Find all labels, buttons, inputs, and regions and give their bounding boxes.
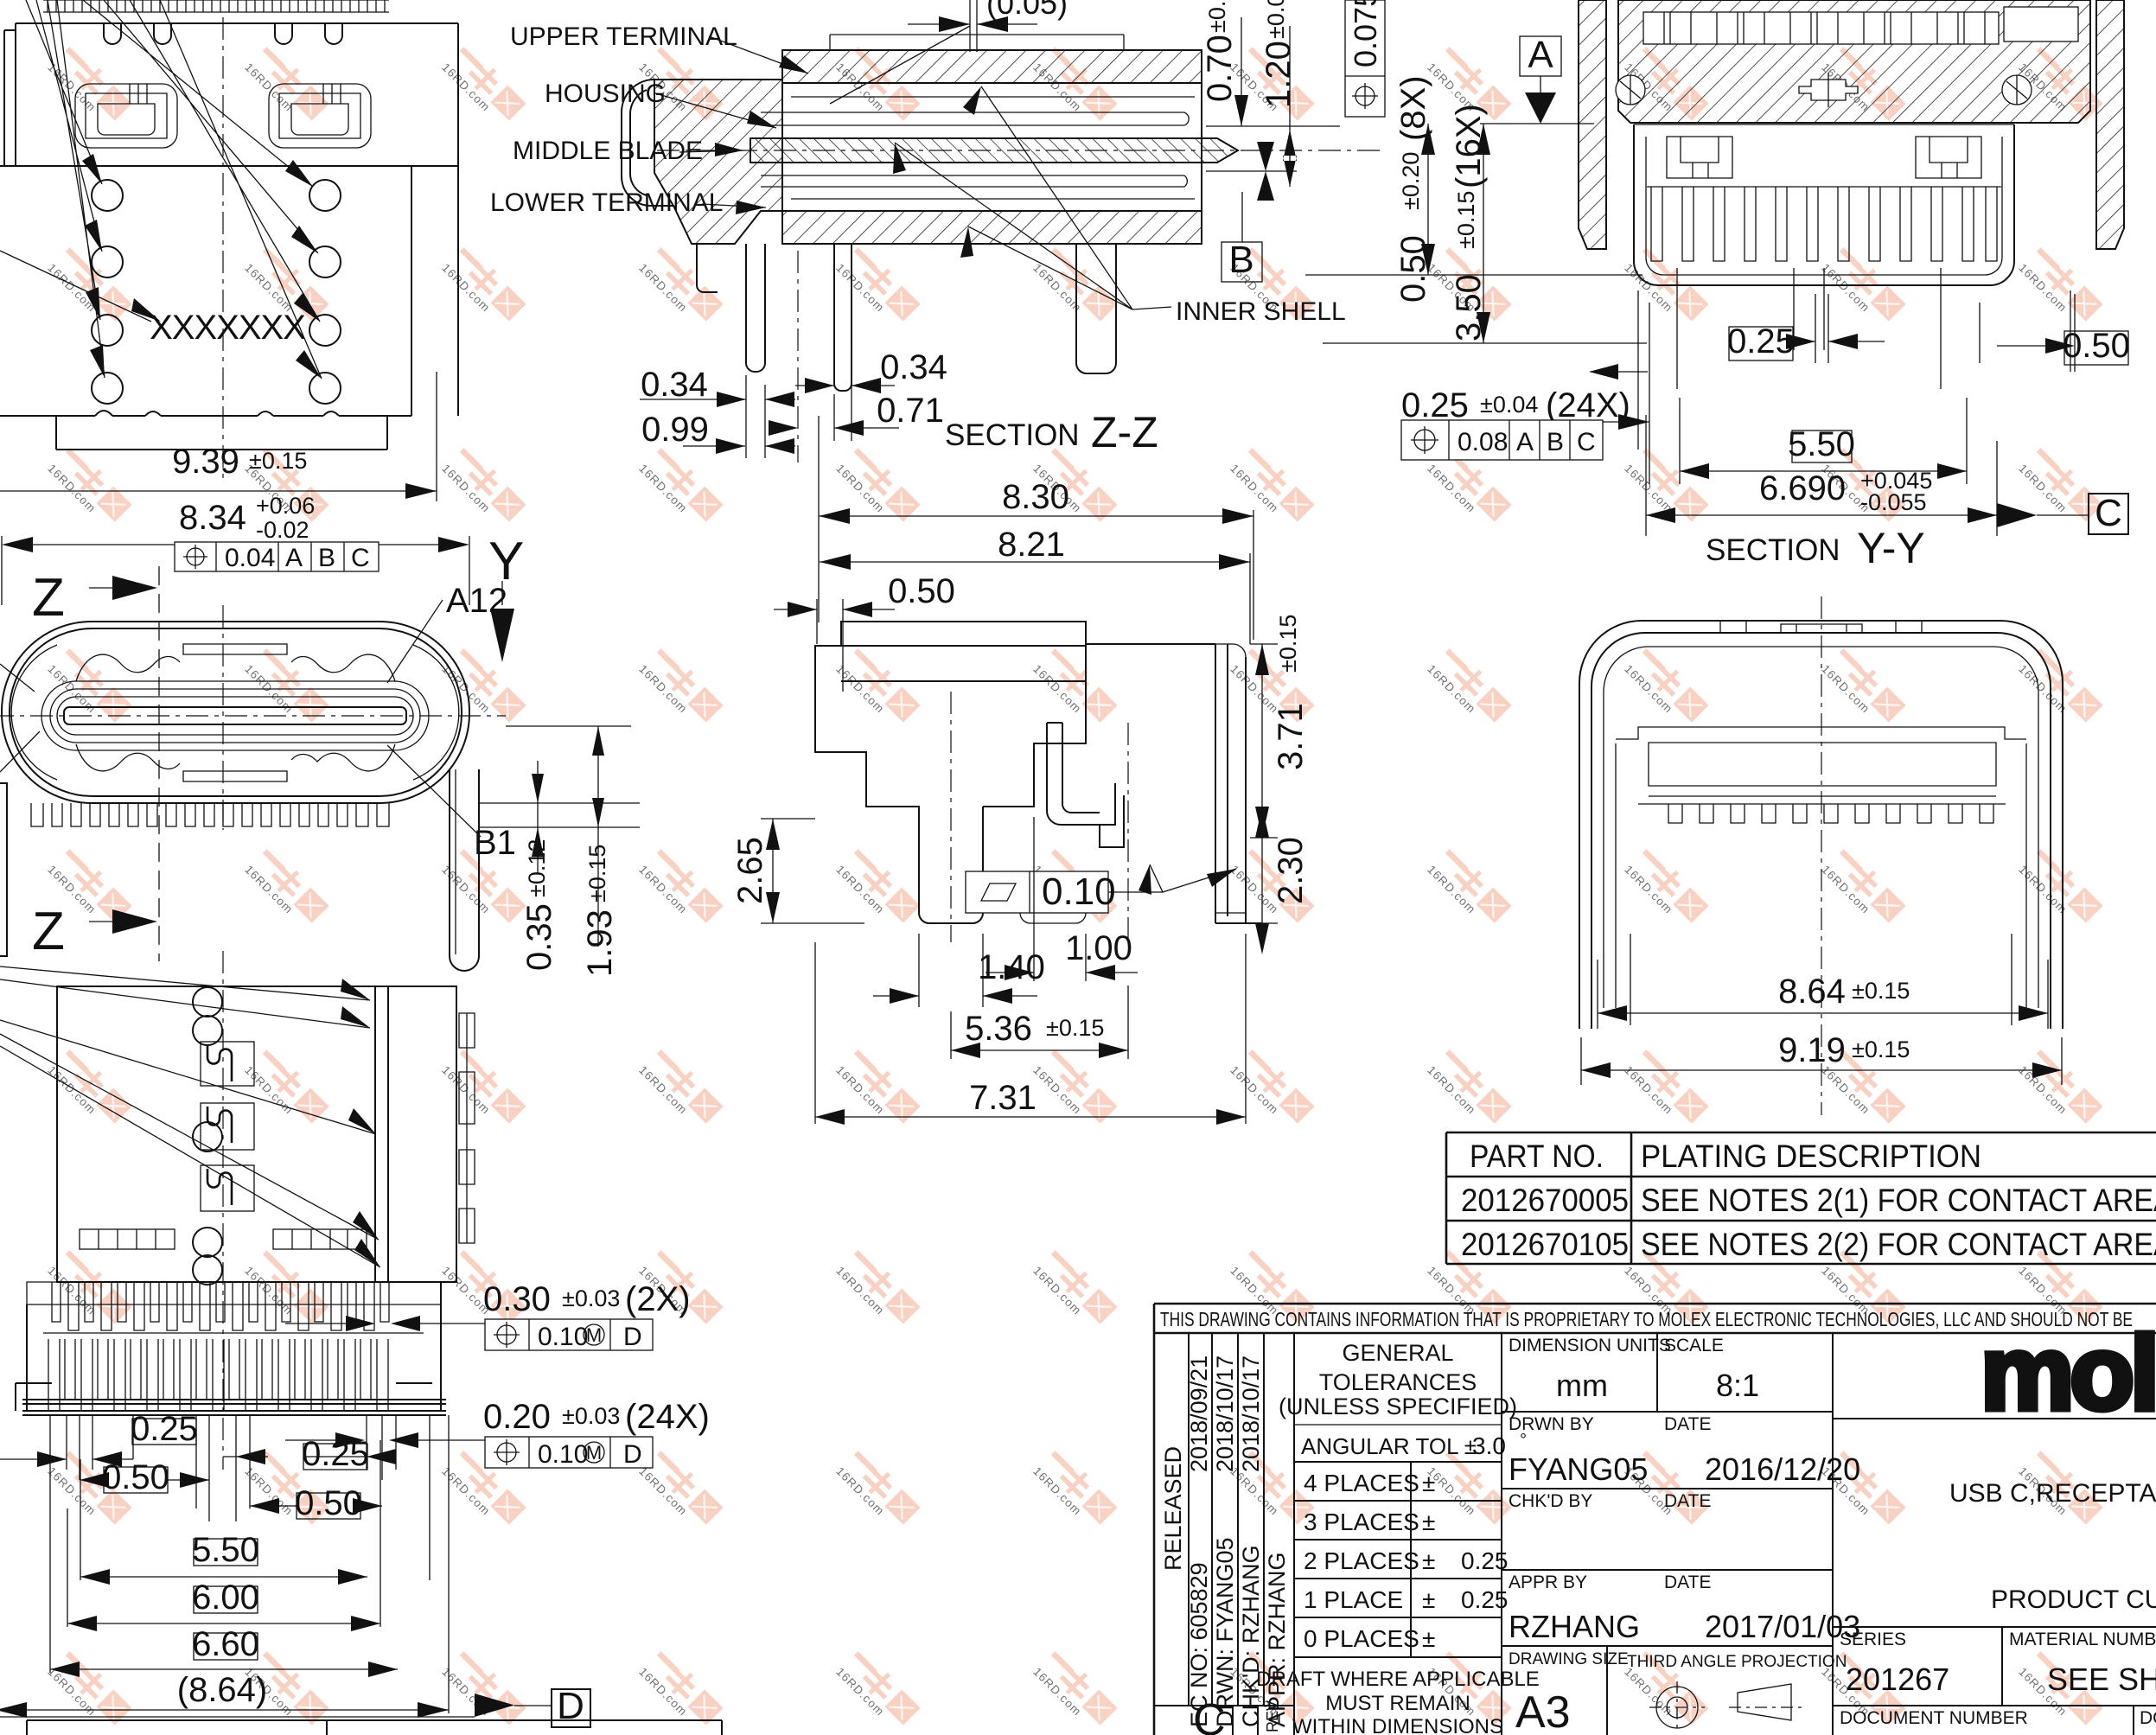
outer shell [1579, 621, 2063, 1029]
inner body [1616, 727, 2026, 823]
svg-text:SEE NOTES 2(1) FOR CONTACT ARE: SEE NOTES 2(1) FOR CONTACT AREA PLATING [1641, 1183, 2156, 1218]
pin comb block [16, 1282, 446, 1415]
svg-text:-0.02: -0.02 [256, 517, 309, 543]
svg-text:XXXXXXX: XXXXXXX [150, 309, 305, 347]
housing block (hatched) [654, 80, 782, 244]
svg-text:±: ± [1422, 1547, 1435, 1574]
vertical feature frame 0.075 [1345, 0, 1385, 117]
position frame 0.04 ABC [175, 542, 379, 571]
svg-text:±0.15: ±0.15 [249, 448, 307, 474]
svg-text:SERIES: SERIES [1840, 1630, 1906, 1649]
left leg stub at page edge [0, 783, 7, 956]
svg-text:0.04: 0.04 [225, 544, 275, 572]
svg-text:2.65: 2.65 [731, 837, 769, 904]
svg-text:2018/09/21: 2018/09/21 [1186, 1355, 1212, 1472]
svg-text:0.25: 0.25 [1401, 386, 1469, 424]
bottom dims [640, 251, 899, 462]
svg-text:DRWN BY: DRWN BY [1509, 1414, 1594, 1434]
svg-text:FYANG05: FYANG05 [1509, 1451, 1648, 1487]
centerline [222, 17, 224, 484]
svg-text:1.20: 1.20 [1260, 41, 1298, 108]
svg-text:7.31: 7.31 [969, 1079, 1037, 1117]
side wall left (hatched) [1579, 0, 1606, 249]
svg-text:B: B [318, 544, 335, 572]
svg-text:2 PLACES: 2 PLACES [1304, 1547, 1419, 1574]
svg-text:A12: A12 [446, 582, 507, 620]
view: bottom (lower-left) [0, 951, 710, 1727]
svg-text:(0.05): (0.05) [986, 0, 1068, 21]
bottom-left notes table stub [27, 1720, 722, 1735]
upper body [4, 23, 458, 166]
svg-text:6.60: 6.60 [192, 1625, 259, 1663]
svg-text:DRAWING SIZE: DRAWING SIZE [1509, 1650, 1629, 1668]
view: SECTION Z-Z [490, 0, 1385, 462]
svg-text:2012670005: 2012670005 [1461, 1183, 1629, 1218]
svg-text:6.690: 6.690 [1759, 469, 1846, 507]
svg-text:3.71: 3.71 [1272, 703, 1310, 770]
svg-text:0.34: 0.34 [880, 348, 947, 386]
EMC finger circles and meanders [193, 987, 222, 1285]
svg-text:0.10: 0.10 [1042, 871, 1116, 913]
bowtie arrows at 0.70 lower [1257, 142, 1274, 201]
dim 6.00 [194, 1586, 258, 1613]
svg-text:0 PLACES: 0 PLACES [1304, 1625, 1419, 1652]
svg-text:PRODUCT CUSTOME: PRODUCT CUSTOME [1991, 1585, 2156, 1614]
svg-text:RZHANG: RZHANG [1509, 1609, 1640, 1644]
extension lines below view [1638, 268, 2070, 450]
right support leg [1076, 244, 1116, 373]
svg-text:M: M [586, 1442, 602, 1464]
svg-text:D: D [623, 1323, 642, 1351]
leader lines fan [0, 0, 322, 379]
svg-text:APPR BY: APPR BY [1509, 1572, 1587, 1592]
svg-text:M: M [586, 1324, 602, 1346]
svg-text:C: C [2095, 492, 2122, 534]
section arrow Y [488, 532, 524, 662]
svg-text:(2X): (2X) [625, 1280, 691, 1318]
svg-text:(UNLESS SPECIFIED): (UNLESS SPECIFIED) [1279, 1394, 1517, 1419]
svg-text:0.50: 0.50 [102, 1458, 169, 1496]
right board lock leg [450, 769, 479, 971]
svg-text:0.075: 0.075 [1348, 0, 1383, 67]
svg-text:2017/01/03: 2017/01/03 [1705, 1609, 1860, 1644]
top block (hatched) [1618, 0, 2090, 123]
svg-text:DOC: DOC [2140, 1708, 2156, 1728]
svg-text:0.08: 0.08 [1458, 428, 1508, 456]
svg-text:0.50: 0.50 [295, 1484, 362, 1522]
dims right 0.35 / 1.93 [478, 726, 640, 947]
contact teeth [1647, 187, 2001, 261]
comb in top block [1643, 7, 2078, 44]
svg-text:0.34: 0.34 [641, 366, 708, 404]
svg-text:Z: Z [32, 568, 65, 628]
svg-text:±0.15: ±0.15 [1275, 615, 1301, 673]
leader fan from page left [0, 966, 380, 1267]
outer shell bottom bar (hatched) [782, 211, 1202, 244]
svg-text:8.64: 8.64 [1778, 973, 1846, 1011]
svg-text:Z: Z [32, 902, 65, 961]
upper pins row [43, 1282, 424, 1333]
dim 5.50 [194, 1539, 258, 1566]
datum A [1520, 36, 1561, 76]
svg-text:MIDDLE BLADE: MIDDLE BLADE [513, 137, 703, 165]
svg-text:DATE: DATE [1664, 1414, 1711, 1434]
dim 0.50 box 2 [297, 1493, 360, 1519]
svg-text:6.00: 6.00 [192, 1579, 259, 1617]
section line Z-Z [32, 566, 159, 961]
SMT pad rows [80, 1229, 367, 1249]
table: part no / plating [1446, 1132, 2156, 1264]
latch cutout left [75, 84, 177, 148]
svg-text:B1: B1 [474, 824, 516, 862]
svg-text:0.20: 0.20 [483, 1398, 551, 1436]
svg-text:±0.15: ±0.15 [1852, 978, 1910, 1004]
svg-text:WITHIN DIMENSIONS: WITHIN DIMENSIONS [1292, 1715, 1503, 1735]
svg-text:±0.15: ±0.15 [1453, 191, 1479, 249]
bottom solder tails [31, 803, 389, 826]
right edge [1201, 50, 1202, 244]
svg-text:MATERIAL NUMBER: MATERIAL NUMBER [2009, 1630, 2156, 1649]
side wall right (hatched) [2096, 0, 2124, 249]
svg-text:0.30: 0.30 [483, 1280, 551, 1318]
svg-text:9.39: 9.39 [172, 443, 239, 481]
center cross [1799, 73, 1858, 107]
svg-text:DOCUMENT NUMBER: DOCUMENT NUMBER [1840, 1708, 2028, 1728]
outer shell [2, 622, 469, 803]
svg-text:THIRD ANGLE PROJECTION: THIRD ANGLE PROJECTION [1627, 1653, 1847, 1671]
svg-text:5.36: 5.36 [965, 1010, 1032, 1048]
housing shell wrap [622, 80, 674, 206]
svg-text:MUST REMAIN: MUST REMAIN [1325, 1692, 1470, 1715]
svg-text:2012670105: 2012670105 [1461, 1227, 1629, 1262]
dim 5.50 box [1792, 431, 1852, 462]
svg-text:201267: 201267 [1846, 1662, 1949, 1697]
svg-text:Y-Y: Y-Y [1857, 524, 1925, 572]
svg-text:USB C,RECEPTACLE: USB C,RECEPTACLE [1949, 1479, 2156, 1508]
svg-text:PLATING DESCRIPTION: PLATING DESCRIPTION [1641, 1139, 1981, 1174]
svg-text:D: D [623, 1440, 642, 1469]
svg-text:DATE: DATE [1664, 1491, 1711, 1511]
clips [1667, 137, 1981, 178]
svg-text:SEE NOTES 2(2) FOR CONTACT ARE: SEE NOTES 2(2) FOR CONTACT AREA PLATING [1641, 1227, 2156, 1262]
svg-text:0.10: 0.10 [538, 1323, 588, 1351]
latch cutout right [269, 84, 371, 148]
svg-text:PART NO.: PART NO. [1470, 1139, 1604, 1174]
middle blade (hatched) [750, 138, 1238, 163]
svg-text:SECTION: SECTION [945, 418, 1080, 452]
svg-text:0.25: 0.25 [131, 1410, 198, 1448]
lower body [0, 166, 458, 450]
left pin leg [697, 244, 765, 372]
centerline [657, 150, 1383, 151]
right edge fitting [459, 1013, 475, 1243]
svg-text:0.25: 0.25 [1727, 322, 1795, 360]
dim 0.50 box right [2064, 331, 2128, 365]
svg-text:LOWER TERMINAL: LOWER TERMINAL [490, 188, 724, 217]
svg-text:0.10: 0.10 [538, 1440, 588, 1469]
svg-text:GENERAL: GENERAL [1342, 1340, 1453, 1366]
svg-text:8.30: 8.30 [1002, 478, 1069, 516]
svg-text:SEE SHEET1: SEE SHEET1 [2047, 1662, 2156, 1697]
svg-text:±0.15: ±0.15 [1852, 1037, 1910, 1062]
svg-text:0.50: 0.50 [888, 572, 955, 610]
svg-text:±: ± [1422, 1470, 1435, 1496]
svg-text:SCALE: SCALE [1664, 1336, 1724, 1355]
dim 6.60 [194, 1633, 258, 1660]
right latch piece [1047, 723, 1124, 847]
svg-text:(24X): (24X) [625, 1398, 710, 1436]
svg-text:±0.05: ±0.05 [1263, 0, 1289, 39]
svg-text:C: C [1577, 428, 1596, 456]
svg-text:3 PLACES: 3 PLACES [1304, 1509, 1419, 1535]
datum D arrow [0, 1716, 475, 1718]
svg-text:C: C [1193, 1695, 1226, 1735]
svg-text:2016/12/20: 2016/12/20 [1705, 1451, 1860, 1487]
svg-text:4 PLACES: 4 PLACES [1304, 1470, 1419, 1496]
third angle symbol [1649, 1681, 1802, 1733]
svg-text:RELEASED: RELEASED [1160, 1446, 1186, 1571]
svg-text:1.00: 1.00 [1065, 929, 1132, 967]
svg-text:8.34: 8.34 [179, 499, 246, 537]
svg-text:DATE: DATE [1664, 1572, 1711, 1592]
inner cavity [41, 681, 429, 750]
svg-text:A: A [1516, 428, 1534, 456]
svg-text:2.30: 2.30 [1272, 837, 1310, 904]
svg-text:CHK'D BY: CHK'D BY [1509, 1491, 1592, 1511]
svg-text:5.50: 5.50 [1788, 425, 1855, 463]
svg-text:9.19: 9.19 [1778, 1031, 1846, 1069]
svg-text:±: ± [1422, 1625, 1435, 1652]
svg-text:DRAFT WHERE APPLICABLE: DRAFT WHERE APPLICABLE [1256, 1668, 1540, 1691]
upper terminal strip [761, 112, 1189, 125]
svg-text:(24X): (24X) [1546, 386, 1630, 424]
svg-text:±0.12: ±0.12 [524, 839, 550, 897]
inner shell cavity [1634, 124, 2014, 285]
svg-text:±0.15: ±0.15 [584, 845, 610, 903]
title block [1154, 1304, 2156, 1735]
svg-text:3.0: 3.0 [1472, 1432, 1506, 1459]
svg-text:1.93: 1.93 [581, 909, 619, 977]
extension lines down [50, 1415, 449, 1713]
svg-text:±0.20: ±0.20 [1398, 152, 1424, 210]
svg-text:8:1: 8:1 [1716, 1368, 1759, 1403]
svg-text:±0.03: ±0.03 [562, 1285, 620, 1311]
view: rear U (right-middle) [1579, 596, 2063, 1115]
svg-text:±0.15: ±0.15 [1046, 1015, 1104, 1041]
svg-text:±0.03: ±0.03 [562, 1403, 620, 1429]
svg-text:-0.055: -0.055 [1860, 489, 1927, 515]
svg-text:Z-Z: Z-Z [1091, 408, 1158, 456]
main body outline [57, 986, 456, 1282]
svg-text:DIMENSION UNITS: DIMENSION UNITS [1509, 1336, 1671, 1355]
dim 0.25 box [1729, 327, 1793, 360]
datum C [1997, 503, 2037, 527]
screw circles [1616, 75, 2032, 105]
svg-text:SECTION: SECTION [1706, 533, 1840, 567]
main body outline [815, 622, 1086, 923]
svg-text:±: ± [1422, 1509, 1435, 1535]
svg-text:B: B [1228, 239, 1253, 281]
svg-text:TOLERANCES: TOLERANCES [1319, 1369, 1477, 1395]
datum B [1241, 192, 1243, 242]
svg-text:molex: molex [1981, 1314, 2156, 1432]
center leg dashed [951, 692, 1128, 942]
legs inner lines [1630, 934, 2012, 1025]
svg-text:0.70: 0.70 [1201, 35, 1239, 102]
svg-text:+0.06: +0.06 [256, 493, 315, 519]
view: rear (top-left) [0, 0, 458, 501]
centerline [1821, 596, 1822, 1115]
dim 0.25 box 2 [303, 1444, 367, 1470]
tongue [64, 707, 406, 724]
svg-text:(8.64): (8.64) [177, 1671, 268, 1709]
svg-text:A: A [1528, 34, 1553, 76]
svg-text:CHK'D: RZHANG: CHK'D: RZHANG [1238, 1545, 1264, 1727]
top comb row [43, 0, 389, 12]
svg-text:0.25: 0.25 [1461, 1586, 1509, 1613]
second leg [834, 244, 852, 391]
svg-text:0.25: 0.25 [1461, 1547, 1509, 1574]
centerlines [0, 715, 506, 717]
svg-text:0.99: 0.99 [641, 411, 709, 449]
svg-text:±: ± [1422, 1586, 1435, 1613]
svg-text:5.50: 5.50 [192, 1531, 259, 1569]
svg-text:UPPER TERMINAL: UPPER TERMINAL [510, 22, 737, 51]
svg-text:±0.05: ±0.05 [1204, 0, 1230, 33]
leader stubs from left [0, 664, 40, 772]
svg-text:0.35: 0.35 [520, 903, 558, 971]
svg-text:2018/10/17: 2018/10/17 [1238, 1355, 1264, 1472]
svg-text:1 PLACE: 1 PLACE [1304, 1586, 1403, 1613]
contact wings top [76, 644, 395, 781]
svg-text:±0.04: ±0.04 [1480, 392, 1538, 418]
svg-text:2018/10/17: 2018/10/17 [1212, 1355, 1238, 1472]
svg-text:C: C [351, 544, 370, 572]
lower terminal strip [761, 175, 1187, 187]
svg-text:0.71: 0.71 [877, 392, 944, 430]
svg-text:A: A [285, 544, 303, 572]
solder hole circles [92, 180, 341, 404]
svg-text:8.21: 8.21 [998, 526, 1065, 564]
lower pins row [48, 1339, 388, 1411]
svg-text:REV: REV [1264, 1700, 1281, 1732]
view: side profile (center) [731, 416, 1310, 1125]
parallelism frame [966, 871, 1108, 913]
view: SECTION Y-Y (top-right) [1305, 0, 2130, 572]
svg-text:HOUSING: HOUSING [545, 80, 666, 108]
svg-text:B: B [1547, 428, 1564, 456]
outer shell top bar (hatched) [782, 50, 1202, 83]
top notches [1720, 621, 1922, 633]
centerline [222, 951, 224, 1470]
right shell plate [1086, 644, 1262, 923]
dim 0.25 box 1 [132, 1419, 196, 1445]
svg-text:A3: A3 [1515, 1687, 1571, 1735]
svg-text:ANGULAR TOL ±: ANGULAR TOL ± [1301, 1433, 1477, 1459]
svg-text:INNER SHELL: INNER SHELL [1176, 297, 1346, 326]
dim 0.50 box 1 [104, 1467, 168, 1493]
view: front stadium [0, 493, 640, 977]
svg-text:mm: mm [1556, 1368, 1608, 1403]
